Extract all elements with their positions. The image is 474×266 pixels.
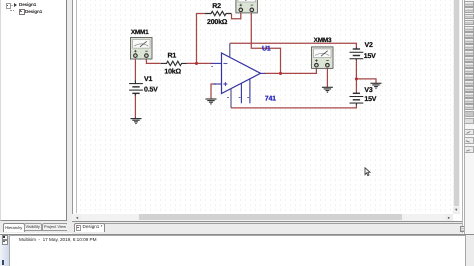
svg-text:V1: V1 — [144, 76, 152, 83]
wire op-amp output to XMM3 left terminal — [265, 67, 317, 74]
pin 6 output lead — [261, 72, 266, 74]
multimeter XMM2 — [236, 0, 258, 13]
workspace outer border lines — [72, 0, 73, 221]
battery V2 — [350, 48, 364, 61]
pin 7 V+ lead — [229, 43, 231, 57]
active sheet tab Design1 — [74, 223, 105, 233]
wire mid-supply node to ground — [356, 79, 376, 83]
svg-text:10kΩ: 10kΩ — [164, 67, 181, 75]
wire node A up to R2 left — [197, 14, 206, 64]
op-amp U1 741 — [211, 43, 265, 108]
svg-text:U1: U1 — [262, 45, 271, 52]
pin 5 offset null lead — [249, 79, 251, 103]
resistor R2 — [205, 11, 231, 15]
tree row 2 — [10, 5, 14, 11]
multimeter XMM1 — [131, 38, 153, 60]
ground below XMM3 — [322, 87, 333, 92]
svg-text:R2: R2 — [212, 3, 221, 10]
wire R1 to inverting input node — [187, 62, 212, 64]
wire XMM3 right terminal to ground — [326, 67, 328, 87]
pin 2 inverting input lead — [211, 62, 222, 64]
wire V1 minus to ground — [134, 94, 136, 118]
ground at supply mid node — [371, 83, 382, 88]
junction supply mid node — [355, 77, 358, 80]
horizontal scrollbar of canvas — [72, 214, 453, 221]
junction output node — [279, 72, 282, 75]
svg-text:15V: 15V — [364, 96, 376, 103]
bottom panel left mini buttons — [2, 235, 7, 240]
svg-text:0.5V: 0.5V — [144, 87, 158, 94]
wire XMM1 right terminal to R1 — [146, 57, 160, 63]
svg-text:XMM1: XMM1 — [131, 29, 149, 36]
battery V3 — [350, 93, 364, 106]
bottom spreadsheet panel — [0, 234, 474, 235]
wire R2 right to XMM2 left terminal — [232, 13, 241, 19]
wire XMM1 left terminal to V1 — [134, 57, 136, 80]
right instruments toolbar — [464, 0, 474, 234]
svg-text:15V: 15V — [364, 53, 376, 60]
svg-text:XMM3: XMM3 — [314, 37, 332, 44]
wire V+ rail: op-amp pin 7 to V2 — [230, 43, 357, 48]
workspace tab strip — [72, 222, 462, 234]
pin number ticks — [211, 66, 249, 97]
wire V2 minus to V3 plus — [355, 59, 357, 93]
junction node A (R1/R2/inverting input) — [195, 62, 198, 65]
svg-text:V3: V3 — [364, 87, 372, 94]
wire XMM2 right terminal to output node — [251, 13, 280, 74]
battery V1 — [129, 80, 143, 95]
svg-text:V2: V2 — [365, 42, 373, 49]
bottom-left tabs: Hierarchy / Visibility / Project View — [0, 221, 71, 233]
pin 1 offset null lead — [240, 83, 242, 103]
wire non-inverting input to ground — [211, 84, 216, 99]
splitter between panel and workspace — [67, 0, 72, 233]
svg-text:741: 741 — [265, 95, 276, 102]
mouse cursor — [365, 168, 370, 176]
tree row 1 — [6, 3, 12, 9]
left design toolbox panel — [0, 0, 67, 221]
schematic canvas with dot grid — [77, 0, 453, 214]
svg-text:200kΩ: 200kΩ — [207, 18, 228, 26]
tabstrip corner icon — [460, 226, 467, 232]
ground below V1 — [131, 118, 142, 124]
resistor R1 — [161, 61, 187, 65]
multimeter XMM3 — [312, 47, 334, 69]
pin 3 non-inverting input lead — [214, 83, 222, 85]
svg-text:R1: R1 — [168, 53, 177, 60]
vertical scrollbar of canvas — [453, 0, 460, 214]
wire V- rail: V3 minus to op-amp pin 4 — [231, 105, 356, 108]
pin 4 V- lead — [230, 89, 232, 108]
ground at non-inverting input — [206, 99, 217, 104]
